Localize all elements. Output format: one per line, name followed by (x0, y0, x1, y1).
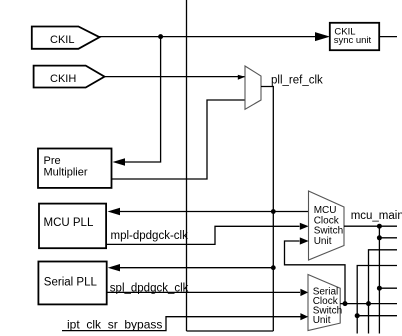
box: Serial PLL (38, 262, 106, 305)
arrowhead into Serial CSU input 1 (300, 289, 308, 296)
arrowhead into MCU PLL (108, 208, 121, 215)
wire: CKIL branch down to Pre Multiplier (124, 37, 161, 162)
arrowhead into MCU CSU input 3 (300, 237, 309, 244)
arrowhead into Serial CSU input 2 (300, 313, 308, 320)
wire: spl_dpdgck_clk to Serial CSU input 1 (107, 291, 301, 293)
node: feedback tap on serial output (343, 301, 348, 306)
arrowhead into CKIL sync unit (315, 32, 330, 41)
svg-text:CKIH: CKIH (50, 73, 76, 85)
wire: pll_ref_clk to Serial PLL (117, 267, 273, 269)
node: junction on mcu_main (377, 224, 382, 229)
node: rail C upper tap (377, 235, 382, 240)
wire: tap at y=238 (379, 237, 397, 239)
node: rail B tap on serial output (366, 301, 371, 306)
node: CKIL junction (158, 34, 163, 39)
wire: mux output down (261, 87, 273, 332)
wire: tap at y=315.7 (357, 315, 397, 317)
svg-text:Pre: Pre (44, 155, 61, 167)
svg-text:mpl-dpdgck-clk: mpl-dpdgck-clk (111, 230, 189, 242)
svg-text:Switch: Switch (314, 226, 343, 237)
svg-text:Serial PLL: Serial PLL (44, 276, 98, 288)
wire: long vertical net at x=187 (186, 0, 188, 331)
svg-text:spl_dpdgck_clk: spl_dpdgck_clk (110, 283, 189, 295)
arrowhead into Serial PLL (108, 264, 120, 271)
wire: serial clock feedback to MCU CSU input 3 (285, 241, 346, 304)
svg-text:Unit: Unit (313, 315, 331, 326)
wire: CKIL net to sync unit (99, 36, 317, 38)
wire: sync unit output (379, 36, 397, 38)
svg-text:sync unit: sync unit (334, 35, 372, 46)
box: Pre Multiplier (38, 149, 112, 188)
wire: pll_ref_clk to MCU PLL and MCU CSU input 1 (117, 211, 309, 213)
svg-text:Clock: Clock (314, 215, 340, 226)
wire: CKIH net to mux (104, 76, 245, 78)
node: junction on mux output vertical (MCU) (271, 209, 276, 214)
wire: rail B with tap at y=250 (369, 250, 398, 334)
svg-text:mcu_main: mcu_main (351, 210, 402, 222)
wire: mcu_main output (344, 225, 397, 227)
Serial Clock Switch Unit (308, 275, 340, 331)
box: CKIL sync unit (330, 23, 379, 50)
mux pll_ref_clk (245, 66, 261, 109)
MCU Clock Switch Unit (309, 191, 345, 260)
wire: serial CSU output (340, 303, 397, 305)
svg-text:MCU PLL: MCU PLL (44, 217, 94, 229)
wire: Pre Multiplier output looping to mux input 2 (112, 100, 245, 179)
arrowhead into MCU CSU input 2 (300, 223, 309, 230)
svg-text:ipt_clk_sr_bypass: ipt_clk_sr_bypass (67, 318, 162, 332)
svg-text:CKIL: CKIL (50, 34, 74, 46)
svg-text:pll_ref_clk: pll_ref_clk (271, 74, 323, 86)
box: MCU PLL (39, 204, 106, 249)
wire: bottom connector between verticals (187, 330, 274, 332)
wire: mpl-dpdgck-clk from MCU PLL to MCU CSU input 2 (107, 226, 300, 244)
node: rail C lower tap (377, 286, 382, 291)
svg-text:Multiplier: Multiplier (44, 166, 88, 178)
arrowhead into Pre Multiplier (113, 158, 126, 165)
wire: rail A from right edge down (357, 266, 397, 334)
input flag CKIH (34, 66, 105, 88)
wire: ipt_clk_sr_bypass to Serial CSU input 2 (62, 317, 301, 331)
svg-text:MCU: MCU (314, 205, 337, 216)
input flag CKIL (32, 27, 100, 49)
arrowhead into mux input 1 (238, 75, 245, 80)
svg-text:Unit: Unit (314, 236, 332, 247)
wire: tap at y=288 (379, 287, 397, 289)
node: junction on mux output vertical (Serial) (271, 265, 276, 270)
wire: right rail C (378, 226, 380, 333)
node: rail A tap (355, 313, 360, 318)
